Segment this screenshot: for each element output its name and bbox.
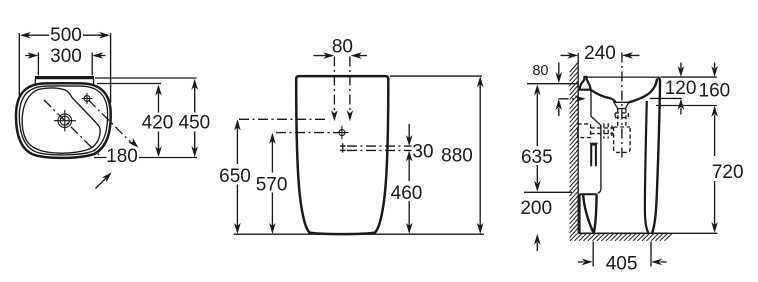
drain funnel bbox=[614, 102, 629, 108]
wall line bbox=[577, 53, 579, 233]
pedestal front inner edge bbox=[645, 101, 649, 233]
dim 160 bbox=[714, 63, 716, 69]
basin inner outline (top view) bbox=[19, 86, 107, 155]
hidden tailpipe bbox=[578, 109, 631, 153]
bowl rim oval (top view) bbox=[22, 88, 100, 153]
dim 570 bbox=[271, 135, 273, 232]
svg-text:80: 80 bbox=[532, 63, 548, 79]
svg-text:300: 300 bbox=[50, 46, 82, 67]
water supply axis bbox=[559, 98, 578, 100]
floor line bbox=[578, 232, 668, 234]
dim 80 (side view) bbox=[558, 63, 560, 117]
svg-text:720: 720 bbox=[712, 162, 744, 183]
svg-text:450: 450 bbox=[179, 113, 211, 134]
svg-text:570: 570 bbox=[256, 175, 288, 196]
svg-text:405: 405 bbox=[606, 254, 638, 275]
faucet hole symbol (top view) bbox=[82, 93, 93, 104]
dim 635 bbox=[536, 93, 538, 183]
dim 880 bbox=[390, 75, 482, 77]
bowl front curve bbox=[629, 79, 657, 103]
basin outline (front view) bbox=[296, 76, 388, 234]
basin lip (top view) bbox=[35, 78, 94, 85]
svg-text:180: 180 bbox=[106, 146, 138, 167]
bowl section curve bbox=[591, 90, 616, 102]
lower extension line bbox=[656, 105, 717, 107]
svg-text:420: 420 bbox=[142, 113, 174, 134]
faucet hole axes (front view) bbox=[334, 57, 350, 115]
dim 300 bbox=[25, 53, 106, 76]
svg-text:880: 880 bbox=[441, 146, 473, 167]
pedestal front outer edge bbox=[652, 77, 660, 232]
drain vertical axis bbox=[621, 53, 623, 159]
dim 240 bbox=[561, 54, 640, 56]
dim 180 arrow bbox=[96, 178, 107, 189]
wall hatch bbox=[570, 63, 578, 238]
svg-text:120: 120 bbox=[665, 78, 697, 99]
svg-text:240: 240 bbox=[584, 43, 616, 64]
drain symbol (front view) bbox=[340, 143, 346, 152]
back foot bbox=[580, 194, 597, 232]
dim 420 bbox=[97, 84, 161, 156]
dim 650 bbox=[236, 121, 238, 232]
drain diagonal axis bbox=[44, 100, 99, 155]
dim 30 bbox=[408, 124, 410, 142]
hidden bottle trap bbox=[614, 127, 631, 152]
svg-text:160: 160 bbox=[699, 81, 731, 102]
svg-text:30: 30 bbox=[412, 142, 433, 163]
floor hatch bbox=[570, 234, 672, 241]
dim 80 (front view) bbox=[314, 55, 368, 57]
svg-text:80: 80 bbox=[332, 36, 353, 57]
basin outer outline (top view) bbox=[16, 83, 111, 158]
rim back bulb bbox=[580, 77, 591, 90]
svg-text:200: 200 bbox=[520, 198, 552, 219]
dim 500 bbox=[19, 33, 110, 103]
svg-text:650: 650 bbox=[219, 166, 251, 187]
bracket slot bbox=[591, 145, 596, 167]
svg-text:460: 460 bbox=[391, 183, 423, 204]
dim 450 bbox=[95, 78, 197, 155]
hidden waste pipe bbox=[591, 128, 614, 134]
dim 405 bbox=[578, 242, 667, 267]
faucet hole symbol (front view) bbox=[335, 126, 348, 139]
svg-text:500: 500 bbox=[50, 25, 82, 46]
drain axes double line bbox=[347, 146, 412, 150]
floor line (front view) bbox=[234, 233, 485, 235]
basin top surface (side view) bbox=[586, 76, 658, 78]
hidden wall outlet box bbox=[578, 124, 591, 138]
pedestal back edge bbox=[591, 91, 601, 194]
upper axis line 650 ref bbox=[239, 118, 327, 120]
mid extension line bbox=[650, 97, 682, 99]
top extension line bbox=[661, 76, 717, 78]
rim ref line bbox=[527, 83, 578, 85]
mid ref line bbox=[524, 191, 572, 193]
dim 460 bbox=[408, 156, 410, 230]
dim 720 bbox=[714, 115, 716, 229]
dim 120 bbox=[680, 63, 682, 115]
drain symbol (top view) bbox=[54, 110, 76, 131]
faucet diagonal axis bbox=[89, 100, 134, 145]
dim 200 bbox=[536, 243, 538, 252]
hole axis line 570 ref bbox=[276, 132, 338, 134]
svg-text:635: 635 bbox=[521, 147, 553, 168]
